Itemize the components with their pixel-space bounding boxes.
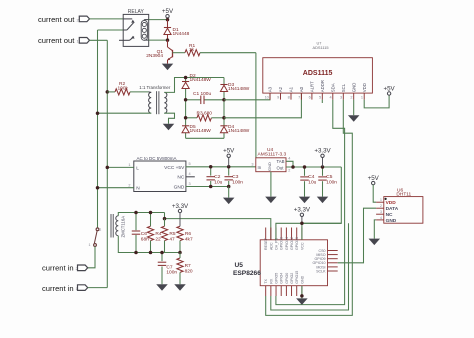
diode D4 1N4148W [220,125,227,127]
svg-text:3: 3 [251,163,253,167]
svg-text:In: In [258,165,262,170]
svg-text:ADDR: ADDR [320,80,325,92]
ground below Q1 [162,64,174,71]
svg-text:ADS1115: ADS1115 [313,45,329,50]
ground transformer secondary [163,124,175,131]
svg-text:VDD: VDD [362,83,367,92]
svg-text:GPIO2: GPIO2 [290,273,294,284]
svg-text:C2: C2 [214,174,220,180]
wire current out 2 to relay contact [90,18,124,20]
svg-text:100n: 100n [166,270,177,276]
svg-text:9: 9 [277,96,279,100]
svg-text:A2: A2 [278,86,283,92]
wire DHT DATA to ESP GPIO10 [338,208,376,263]
svg-text:TX: TX [264,279,268,284]
svg-text:SCLK: SCLK [316,269,326,273]
svg-text:R4: R4 [155,231,161,237]
svg-text:3: 3 [380,210,382,214]
wire Q1 base to R1 [173,52,186,54]
ADS GND pin to ground [353,100,355,116]
wire net B vertical (live rail) [106,40,108,287]
svg-text:ZMCT116A: ZMCT116A [121,216,126,238]
bridge left rail [185,78,187,139]
resistor R5 47 [164,219,166,227]
svg-text:R5: R5 [169,231,175,237]
ESP8266 bottom pins [265,286,267,296]
ground below C4 [299,197,311,204]
wire ADS SCL to bus [266,100,353,316]
ADS VDD pin to +5V [364,95,389,108]
wire ADS SDA to bus [276,100,345,305]
svg-text:R3 680: R3 680 [197,111,213,117]
svg-text:A3: A3 [268,86,273,92]
wire bridge to ADS A0 [224,93,301,118]
relay NC contact stub [119,39,130,41]
IC U5 ESP8266 box [260,240,327,286]
U4 GND pin to ground [270,172,272,197]
svg-text:5: 5 [189,162,191,166]
svg-text:4: 4 [329,96,331,100]
diode D1 1N4448 [167,20,169,40]
svg-text:GPIO5: GPIO5 [275,273,279,284]
wire R2 to transformer primary [130,91,149,93]
svg-text:5: 5 [319,96,321,100]
svg-text:+5V: +5V [368,175,380,182]
resistor R7 820 [179,253,181,259]
wire ESP CH_PD to +3.3V rail [276,223,341,240]
svg-text:7: 7 [298,96,300,100]
IC U6 DHT11 box [384,197,423,224]
resistor R6 4k7 [177,226,183,240]
svg-text:GND: GND [300,275,304,283]
wire +3.3V rail branch down to ESP RX pull [271,223,349,310]
wire divider node rail to ESP ADC [165,213,271,240]
ZMCT primary switch contact [96,228,99,231]
svg-text:SDA: SDA [330,83,335,92]
svg-text:2: 2 [99,228,101,232]
svg-text:C1 100u: C1 100u [193,91,211,97]
AC-DC module PS1 box [134,161,186,192]
relay coil [141,20,147,40]
wire net A vertical [97,30,99,228]
wire current out 1 to net B [90,39,108,41]
svg-text:VDD: VDD [386,200,397,206]
svg-text:RX: RX [269,278,273,284]
wire +5V rail from AC-DC VCC to U4 In [186,166,256,168]
svg-text:100n: 100n [326,180,337,186]
svg-text:ALRT: ALRT [310,81,315,92]
svg-text:47: 47 [169,236,175,242]
wire relay coil to Q1 collector node [149,39,168,41]
capacitor C7 100n [161,253,163,262]
svg-text:NC: NC [386,212,393,218]
ADS1115 bottom pins with names and numbers [269,93,271,100]
wire bridge to ADS A3 [224,93,270,100]
svg-text:1N4148W: 1N4148W [190,128,212,134]
svg-text:1N4148W: 1N4148W [190,77,212,83]
ESP8266 top pins [265,228,267,240]
capacitor C2 10u [210,167,212,176]
svg-text:GND: GND [174,185,185,191]
svg-text:GPIO14: GPIO14 [285,237,289,250]
svg-text:1N4148W: 1N4148W [228,128,250,134]
ESP8266 right pins [328,250,338,252]
svg-text:GND: GND [351,83,356,93]
svg-text:2: 2 [380,204,382,208]
svg-text:ESP8266: ESP8266 [233,270,261,277]
svg-text:4: 4 [380,216,382,220]
wire +5V to DHT VDD [373,185,376,202]
svg-text:GND: GND [267,162,272,171]
svg-text:DHT11: DHT11 [396,192,411,198]
svg-text:current out: current out [38,15,75,24]
svg-text:GPIO13: GPIO13 [295,237,299,250]
svg-text:1k: 1k [189,47,195,53]
IC U7 ADS1115 box [263,58,373,93]
ESP GND pin to ground [301,286,303,299]
diode D5 1N4148W [182,125,189,127]
svg-text:C7: C7 [166,264,172,270]
svg-text:+3.3V: +3.3V [172,203,189,210]
svg-text:CH_PD: CH_PD [275,237,279,250]
IC U4 AMS1117-3.3 box [256,158,286,172]
wire ESP VCC [301,223,303,240]
svg-text:+5V: +5V [162,8,174,15]
svg-text:DATA: DATA [386,206,399,212]
svg-text:GND: GND [386,218,397,224]
svg-text:R6: R6 [185,231,191,237]
capacitor C4 10u [304,167,306,176]
resistor R1 1k [185,50,200,56]
wire L pin to net B [107,166,134,168]
ZMCT secondary loop wires [118,213,164,216]
wire ZMCT primary to current in 2 [88,246,95,267]
svg-text:1:1 Transformer: 1:1 Transformer [139,85,171,90]
svg-text:+5V: +5V [223,148,235,155]
capacitor C6 68n [135,213,137,231]
svg-text:1: 1 [89,243,91,247]
ground below C5 [317,197,329,204]
svg-text:3: 3 [340,96,342,100]
svg-text:2N3904: 2N3904 [146,53,163,59]
svg-text:AMS1117-3.3: AMS1117-3.3 [258,151,287,157]
wire net A relay common horizontal [98,29,124,31]
wire transformer primary bottom to net A [98,112,152,114]
svg-text:current out: current out [38,36,75,45]
wire +3.3V feed down to ESP VCC [302,167,341,223]
diode D3 1N4148W [220,84,227,86]
wire relay coil to +5V/D1 node [149,19,168,21]
capacitor C3 100n [228,167,230,176]
svg-text:3: 3 [189,182,191,186]
svg-text:1: 1 [380,198,382,202]
svg-text:C3: C3 [232,174,238,180]
capacitor C5 100n [322,167,324,176]
wire R1 to GPIO control net [200,52,256,54]
svg-text:Out: Out [277,166,285,171]
ground below C7 [156,284,168,291]
svg-text:TAB: TAB [277,159,285,164]
svg-text:SCL: SCL [341,83,346,92]
svg-text:1N4448: 1N4448 [173,31,190,37]
svg-text:1N4148W: 1N4148W [228,86,250,92]
svg-text:A1: A1 [289,86,294,92]
relay contact arm [123,18,132,20]
svg-text:2: 2 [128,183,130,187]
svg-text:8: 8 [288,96,290,100]
bridge right rail [223,78,225,139]
svg-text:10u: 10u [214,179,222,185]
wire GND rail AC-DC [186,186,229,188]
svg-text:2: 2 [350,96,352,100]
svg-text:current in: current in [42,284,74,293]
U4 TAB pin tie to Out [286,161,293,167]
wire transformer secondary bottom to ground [164,113,174,124]
resistor R4 22 [150,213,152,227]
svg-text:22: 22 [155,236,161,242]
ground below R7 [174,284,186,291]
svg-text:NC: NC [177,175,184,181]
relay K1 box [123,14,149,46]
svg-text:+3.3V: +3.3V [314,148,331,155]
svg-text:AC to DC 5V800mA: AC to DC 5V800mA [137,156,177,161]
svg-text:VCC +5V: VCC +5V [164,165,185,171]
svg-text:10u: 10u [308,180,316,186]
resistor R2 100k [106,90,110,94]
svg-text:GPIO16: GPIO16 [280,237,284,250]
diode D2 1N4148W [182,81,189,83]
ground below C3 [228,187,230,198]
svg-text:ADS1115: ADS1115 [303,70,333,77]
svg-text:+3.3V: +3.3V [294,207,311,214]
svg-text:RESET: RESET [264,237,268,250]
svg-text:R7: R7 [185,263,191,269]
svg-text:ADC: ADC [269,242,273,250]
svg-text:2: 2 [288,169,290,173]
svg-text:100n: 100n [232,179,243,185]
bridge bottom rail [186,137,224,139]
svg-text:L: L [136,166,139,172]
svg-text:100k: 100k [118,85,129,91]
svg-text:GPIO0: GPIO0 [285,273,289,284]
svg-text:GPIO15: GPIO15 [295,271,299,284]
wire DHT GND to ground [374,220,376,239]
transistor Q1 2N3904 [167,40,169,47]
svg-text:RELAY: RELAY [128,9,145,15]
ADS ADDR stub [321,100,323,103]
svg-text:1: 1 [361,96,363,100]
wire current in 1 to net B [88,287,107,289]
svg-text:+5V: +5V [384,85,396,92]
svg-text:C6: C6 [141,231,147,237]
svg-text:N: N [136,186,140,192]
capacitor C1 100u [186,99,201,101]
svg-text:4: 4 [288,156,290,160]
svg-text:VCC: VCC [300,242,304,250]
wire U4 Out to +3.3V rail [286,166,341,168]
svg-text:1: 1 [128,163,130,167]
svg-text:U5: U5 [235,262,244,269]
svg-text:C4: C4 [308,174,314,180]
wire N pin to net A [98,187,134,189]
svg-text:4: 4 [189,172,191,176]
svg-text:C5: C5 [326,174,332,180]
AC-DC NC stub [186,176,195,178]
svg-text:820: 820 [185,268,193,274]
svg-text:4k7: 4k7 [185,236,193,242]
resistor R3 680 [186,117,197,119]
svg-text:GPIO4: GPIO4 [280,273,284,284]
svg-text:6: 6 [309,96,311,100]
svg-text:10: 10 [265,96,269,100]
wire transformer secondary top to bridge [164,78,224,93]
svg-text:A0: A0 [299,86,304,92]
svg-text:GPIO12: GPIO12 [290,237,294,250]
svg-text:current in: current in [42,264,74,273]
